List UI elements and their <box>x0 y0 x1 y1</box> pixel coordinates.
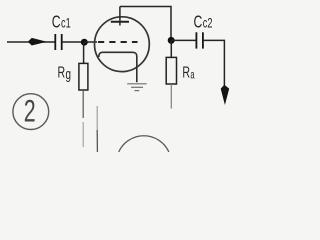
wire lower lead of next stage upper <box>96 106 98 130</box>
svg-text:2: 2 <box>24 93 36 128</box>
wire plate to output node <box>120 7 171 41</box>
triode V1 plate <box>111 21 129 23</box>
background paper <box>0 0 240 152</box>
wire node to Cc2 <box>171 39 196 41</box>
wire input line <box>7 41 55 43</box>
wire node to tube grid <box>84 41 97 43</box>
triode V1 plate lead <box>119 7 121 26</box>
wire lower lead of next stage lower <box>96 130 98 152</box>
wire Cc1 to grid node <box>62 41 85 43</box>
input arrowhead <box>28 38 47 46</box>
capacitor Cc1 <box>55 34 61 50</box>
triode V1 grid (dashed) <box>98 41 138 43</box>
output arrowhead <box>221 85 230 105</box>
resistor Ra <box>166 57 176 84</box>
figure number circle 2 <box>13 94 49 130</box>
ground <box>127 84 147 91</box>
wire node down to Rg <box>83 42 85 63</box>
triode V1 cathode and lead to ground <box>99 52 137 82</box>
wire Cc2 to output corner <box>203 40 225 88</box>
svg-text:Rg: Rg <box>58 63 72 82</box>
wire Rg bottom lead lower <box>82 122 84 147</box>
wire Ra bottom lead <box>170 84 172 109</box>
wire node to Ra <box>170 40 172 57</box>
junction dot anode node <box>168 37 175 44</box>
junction dot grid node <box>81 39 88 46</box>
resistor Rg <box>79 63 88 90</box>
wire Rg bottom lead upper <box>82 90 84 118</box>
capacitor Cc2 <box>196 32 203 48</box>
triode V1 envelope <box>95 17 150 72</box>
next stage tube arc <box>119 136 169 152</box>
